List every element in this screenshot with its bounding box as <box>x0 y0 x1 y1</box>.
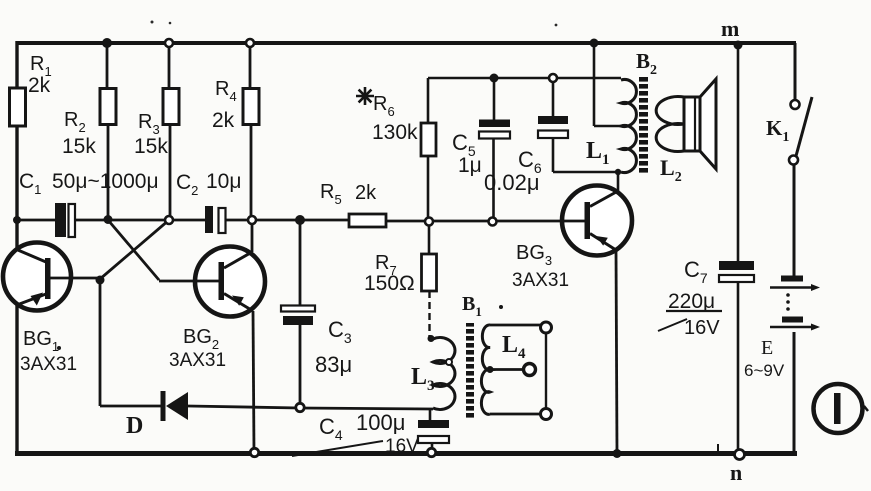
node L1 bottom BG3 collector <box>615 169 621 175</box>
node bus R4 <box>248 216 256 224</box>
inductor L4 with taps <box>481 322 551 420</box>
node L3 top <box>428 335 435 342</box>
node ground C4 <box>427 448 435 456</box>
inductor L1 <box>586 80 636 173</box>
wire C3 leads <box>299 220 302 406</box>
node ground BG3 emitter <box>613 449 622 458</box>
inductor L2 speaker coil <box>656 97 684 186</box>
capacitor C6 <box>484 116 568 195</box>
wire C4 leads <box>430 409 432 452</box>
wire diode row to C3 and L3 bottom <box>100 406 433 409</box>
svg-text:15k: 15k <box>62 135 96 158</box>
svg-text:16V: 16V <box>684 317 720 339</box>
diode D <box>126 391 188 439</box>
node bus R6 R7 <box>425 218 433 226</box>
node bus R3 <box>165 216 173 224</box>
wire BG3 emitter down to ground <box>616 250 617 453</box>
wire BG2 collector to R4 node <box>251 220 254 252</box>
node BG1 base <box>96 276 105 285</box>
svg-text:m: m <box>721 16 739 41</box>
wire cross-coupling R3 to BG1 base <box>100 220 169 279</box>
wire cross-coupling R2 to BG2 base <box>108 220 196 281</box>
node C5 top <box>490 74 499 83</box>
svg-text:2k: 2k <box>28 74 51 97</box>
svg-text:2k: 2k <box>355 182 377 204</box>
wire R3 leads <box>169 43 170 220</box>
wire base bus row y220 <box>17 220 562 221</box>
transistor BG2 <box>169 247 265 372</box>
wire bottom ground rail <box>15 451 797 456</box>
transformer B2 core <box>636 49 657 174</box>
resistor R2 <box>62 89 116 159</box>
wire C6 leads <box>552 78 555 172</box>
battery E <box>744 276 820 381</box>
wire BG2 emitter down to ground <box>253 311 254 452</box>
wire top rail to L1 tap <box>594 43 621 126</box>
stray scan specks top <box>151 21 154 24</box>
wire m to n vertical through C7 <box>737 45 740 452</box>
svg-text:130k: 130k <box>372 121 418 144</box>
resistor R1 <box>10 53 52 126</box>
svg-text:1μ: 1μ <box>458 154 482 177</box>
capacitor C3 <box>281 306 352 378</box>
svg-text:50μ~1000μ: 50μ~1000μ <box>52 170 159 193</box>
node top rail junction R4 <box>246 39 254 47</box>
node bus C5 <box>489 218 497 226</box>
svg-text:6~9V: 6~9V <box>744 361 785 380</box>
transistor BG3 <box>512 186 632 292</box>
wire right border battery branch <box>794 43 795 454</box>
capacitor C5 <box>452 120 510 178</box>
wire R2 leads <box>107 43 108 220</box>
node bus left <box>13 216 21 224</box>
node bus R2 <box>104 215 113 224</box>
transistor BG1 <box>3 243 77 376</box>
capacitor C1 <box>19 170 159 237</box>
wire left border with R1 and BG1 gaps <box>15 41 18 455</box>
svg-text:E: E <box>761 337 773 359</box>
node bus C3 <box>295 215 305 225</box>
node top rail junction L1 tap <box>590 39 599 48</box>
stray dot after BG1 label <box>57 346 61 350</box>
transformer B1 core <box>462 293 503 419</box>
speaker <box>684 79 716 169</box>
svg-text:83μ: 83μ <box>315 352 352 377</box>
svg-text:220μ: 220μ <box>668 290 715 313</box>
svg-text:3AX31: 3AX31 <box>512 270 569 291</box>
wire C5 leads <box>492 78 495 221</box>
wire R4 leads <box>250 43 251 219</box>
resistor R3 <box>134 89 179 159</box>
terminal m <box>721 16 743 50</box>
svg-text:150Ω: 150Ω <box>364 272 415 295</box>
capacitor C7 <box>658 257 754 339</box>
svg-text:3AX31: 3AX31 <box>169 350 226 371</box>
capacitor C2 <box>176 170 241 233</box>
svg-text:0.02μ: 0.02μ <box>484 170 540 195</box>
wire BG1 base and down to diode <box>71 278 100 406</box>
wire C6 to L1 bottom collector node y172 <box>553 172 621 192</box>
inductor L3 <box>411 338 455 410</box>
wire R7 leads <box>428 221 431 254</box>
stray mark tick above rail <box>717 444 719 451</box>
resistor R7 <box>364 252 437 295</box>
wire R6 C5 C6 L1 top line y78 <box>428 77 621 80</box>
terminal n <box>730 450 745 486</box>
resistor R4 <box>212 78 259 132</box>
svg-text:10μ: 10μ <box>206 170 241 193</box>
node ground BG2 emitter <box>250 448 258 456</box>
node diode C3 junction <box>296 403 304 411</box>
svg-text:16V: 16V <box>385 436 419 457</box>
node C6 top <box>549 74 557 82</box>
svg-text:15k: 15k <box>134 135 168 158</box>
figure number circled 1 <box>814 384 869 433</box>
svg-text:2k: 2k <box>212 109 235 132</box>
switch K1 <box>766 97 812 165</box>
svg-text:n: n <box>730 460 742 485</box>
wire top supply rail m-line <box>16 41 796 45</box>
resistor R5 <box>320 181 386 227</box>
wire R6 leads <box>427 78 430 221</box>
capacitor C4 <box>292 410 449 457</box>
resistor R6 <box>356 87 436 156</box>
node top rail junction R2 <box>102 38 112 48</box>
node top rail junction R3 <box>165 39 173 47</box>
svg-text:3AX31: 3AX31 <box>20 354 77 375</box>
svg-text:100μ: 100μ <box>356 410 405 435</box>
svg-text:D: D <box>126 413 143 439</box>
